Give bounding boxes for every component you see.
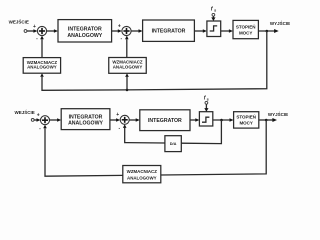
svg-text:ANALOGOWY: ANALOGOWY	[67, 33, 102, 39]
svg-text:ANALOGOWY: ANALOGOWY	[68, 121, 103, 127]
svg-text:s: s	[207, 98, 209, 102]
svg-text:D/A: D/A	[170, 141, 177, 146]
svg-text:STOPIEŃ: STOPIEŃ	[236, 23, 256, 30]
svg-text:INTEGRATOR: INTEGRATOR	[148, 118, 182, 124]
svg-text:+: +	[37, 113, 40, 119]
svg-text:WEJŚCIE: WEJŚCIE	[9, 19, 29, 25]
svg-text:ANALOGOWY: ANALOGOWY	[113, 64, 143, 69]
svg-text:WEJŚCIE: WEJŚCIE	[14, 109, 34, 115]
svg-text:MOCY: MOCY	[239, 30, 253, 35]
svg-text:INTEGRATOR: INTEGRATOR	[69, 114, 103, 120]
svg-text:INTEGRATOR: INTEGRATOR	[68, 27, 102, 33]
svg-text:WYJŚCIE: WYJŚCIE	[268, 111, 288, 117]
svg-text:+: +	[33, 24, 36, 30]
svg-text:+: +	[118, 24, 121, 30]
svg-text:s: s	[214, 9, 216, 13]
svg-text:+: +	[116, 112, 119, 118]
svg-text:ANALOGOWY: ANALOGOWY	[127, 175, 157, 180]
svg-text:WYJŚCIE: WYJŚCIE	[270, 20, 290, 26]
svg-text:STOPIEŃ: STOPIEŃ	[236, 113, 256, 120]
svg-text:WZMACNIACZ: WZMACNIACZ	[127, 169, 158, 174]
svg-text:INTEGRATOR: INTEGRATOR	[152, 29, 186, 35]
svg-text:MOCY: MOCY	[239, 120, 253, 125]
svg-text:ANALOGOWY: ANALOGOWY	[27, 64, 57, 69]
